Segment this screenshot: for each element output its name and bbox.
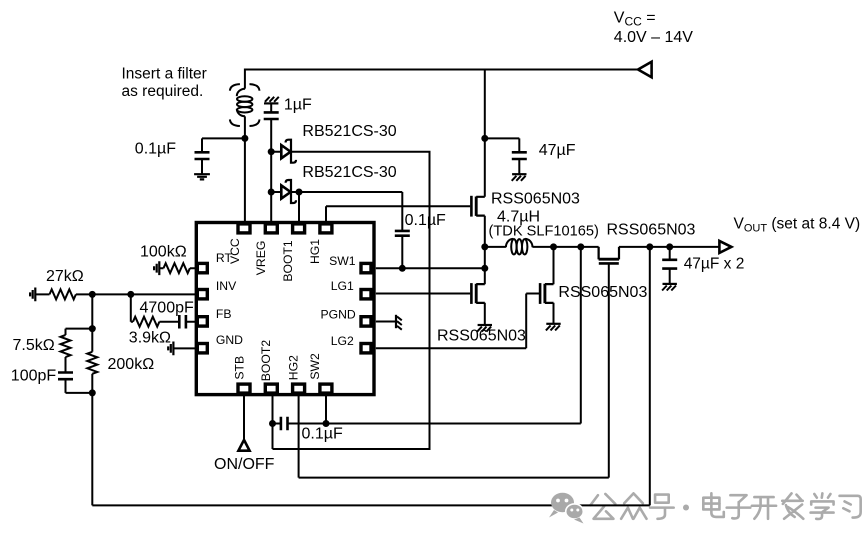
svg-text:0.1µF: 0.1µF: [135, 141, 176, 158]
svg-text:STB: STB: [232, 356, 246, 380]
svg-text:(TDK SLF10165): (TDK SLF10165): [489, 223, 599, 239]
svg-text:0.1µF: 0.1µF: [405, 212, 446, 229]
svg-text:RSS065N03: RSS065N03: [491, 190, 580, 207]
svg-text:4700pF: 4700pF: [140, 299, 194, 316]
svg-text:RSS065N03: RSS065N03: [607, 222, 696, 239]
svg-text:BOOT2: BOOT2: [259, 340, 273, 382]
svg-text:47µF x 2: 47µF x 2: [684, 255, 745, 272]
svg-text:RSS065N03: RSS065N03: [558, 284, 647, 301]
svg-text:HG1: HG1: [308, 239, 322, 264]
svg-text:0.1µF: 0.1µF: [302, 426, 343, 443]
svg-text:HG2: HG2: [286, 355, 300, 380]
svg-text:FB: FB: [216, 307, 232, 321]
svg-text:RB521CS-30: RB521CS-30: [302, 164, 396, 181]
svg-text:VCC: VCC: [228, 238, 242, 264]
svg-text:200kΩ: 200kΩ: [108, 356, 155, 373]
svg-text:RB521CS-30: RB521CS-30: [302, 123, 396, 140]
svg-text:RSS065N03: RSS065N03: [437, 328, 526, 345]
svg-text:100pF: 100pF: [11, 367, 57, 384]
svg-text:Insert a filter: Insert a filter: [122, 65, 207, 82]
svg-text:ON/OFF: ON/OFF: [214, 456, 275, 473]
svg-text:4.0V – 14V: 4.0V – 14V: [614, 29, 694, 46]
svg-text:LG1: LG1: [331, 279, 354, 293]
svg-text:100kΩ: 100kΩ: [140, 243, 187, 260]
svg-text:3.9kΩ: 3.9kΩ: [129, 329, 171, 346]
svg-text:PGND: PGND: [321, 307, 356, 321]
svg-text:as required.: as required.: [122, 83, 204, 100]
svg-text:SW1: SW1: [329, 254, 356, 268]
svg-text:7.5kΩ: 7.5kΩ: [13, 337, 55, 354]
svg-text:LG2: LG2: [331, 334, 354, 348]
svg-text:1µF: 1µF: [284, 97, 312, 114]
svg-text:INV: INV: [216, 279, 237, 293]
svg-text:VREG: VREG: [254, 241, 268, 276]
svg-text:GND: GND: [216, 333, 243, 347]
svg-text:BOOT1: BOOT1: [281, 240, 295, 282]
svg-text:SW2: SW2: [308, 353, 322, 380]
svg-text:27kΩ: 27kΩ: [46, 268, 84, 285]
svg-text:47µF: 47µF: [539, 142, 576, 159]
